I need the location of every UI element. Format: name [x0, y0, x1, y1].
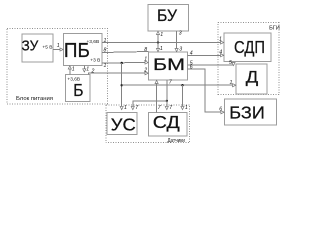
wire Б pin 2 to БМ pin 2	[89, 67, 149, 74]
block Б	[66, 75, 91, 102]
svg-text:1: 1	[86, 66, 89, 72]
dashed enclosure: БГИ	[218, 23, 280, 95]
wire pin7 net to СД pin 7	[167, 101, 174, 111]
svg-text:8: 8	[144, 47, 147, 53]
svg-text:1: 1	[160, 32, 163, 38]
svg-text:1: 1	[72, 66, 75, 72]
svg-text:+5 В: +5 В	[42, 45, 52, 51]
dashed enclosure: Блок питания	[7, 29, 107, 105]
wire ПБ down to Б pin 1	[84, 66, 89, 73]
svg-text:3: 3	[179, 31, 182, 37]
block БУ	[148, 5, 189, 32]
wire СД out up to БМ bottom	[157, 81, 162, 113]
wire Б pin 1 up to ПБ	[70, 66, 75, 75]
junction pin7 net	[166, 100, 168, 102]
svg-text:СДП: СДП	[234, 37, 265, 57]
block СДП	[224, 33, 271, 61]
svg-text:БГИ: БГИ	[269, 25, 280, 31]
wire +3,6V rail: ПБ to СДП pin 1	[102, 36, 224, 44]
wire +3V drop to УС pin 1	[122, 63, 127, 111]
block УС	[107, 112, 137, 134]
svg-text:7: 7	[158, 105, 162, 111]
svg-text:1: 1	[160, 46, 163, 52]
svg-text:7: 7	[135, 105, 139, 111]
junction on rail at БУ/БМ vertical	[157, 41, 159, 43]
block ПБ	[64, 34, 103, 66]
dashed enclosure: Датчики	[106, 105, 190, 144]
svg-text:1: 1	[104, 38, 107, 44]
junction bus left	[121, 84, 123, 86]
wire БМ pin 7 down	[167, 79, 173, 101]
svg-text:5: 5	[229, 60, 232, 66]
svg-text:Датчики: Датчики	[167, 138, 185, 144]
block ЗУ	[22, 34, 54, 62]
svg-text:+3,6В: +3,6В	[87, 39, 100, 45]
svg-text:Б: Б	[73, 80, 83, 100]
svg-text:СД: СД	[153, 112, 180, 132]
junction on +3V rail	[121, 62, 123, 64]
wire +3V rail: ПБ to БМ pin 1	[102, 56, 148, 69]
wire ЗУ to ПБ pin 1	[53, 43, 63, 50]
wire БУ pin 1 / БМ pin 1 vertical	[158, 32, 163, 52]
svg-text:1: 1	[230, 80, 233, 86]
wire +3V bus to Д	[122, 80, 236, 86]
svg-text:1: 1	[144, 56, 147, 62]
svg-text:БМ: БМ	[153, 55, 185, 74]
wire БМ pin 6 to БЗИ pin 6	[188, 64, 224, 112]
wire БМ pin 5 to Д pin 5	[188, 60, 234, 67]
svg-text:6: 6	[190, 64, 193, 70]
svg-text:1: 1	[124, 105, 127, 111]
wire drop to СД pin 1	[183, 85, 188, 111]
svg-text:3: 3	[179, 46, 182, 52]
svg-text:ЗУ: ЗУ	[22, 39, 39, 55]
svg-text:1: 1	[57, 43, 60, 49]
svg-text:1: 1	[219, 36, 222, 42]
svg-text:6: 6	[219, 106, 222, 112]
svg-text:Д: Д	[246, 68, 258, 86]
svg-text:+3 В: +3 В	[90, 57, 100, 63]
block СД	[148, 112, 187, 136]
svg-text:БЗИ: БЗИ	[229, 103, 264, 123]
svg-text:Блок питания: Блок питания	[16, 96, 53, 102]
svg-text:8: 8	[104, 48, 107, 54]
svg-text:УС: УС	[111, 114, 136, 134]
block БМ	[149, 52, 188, 80]
wire БУ pin 3 to БМ pin 3	[177, 31, 183, 53]
wire БМ pin 4 to СДП pin 4	[188, 49, 224, 56]
svg-text:2: 2	[143, 67, 147, 73]
svg-text:БУ: БУ	[157, 7, 178, 25]
svg-text:4: 4	[190, 50, 193, 56]
svg-text:7: 7	[169, 105, 173, 111]
svg-text:2: 2	[91, 68, 95, 74]
svg-text:4: 4	[219, 49, 222, 55]
junction bus at СД drop	[181, 84, 183, 86]
svg-text:1: 1	[104, 63, 107, 69]
block Д	[236, 64, 267, 94]
wire ПБ to БМ pin 8	[102, 47, 149, 54]
block БЗИ	[224, 99, 276, 125]
wire pin7 net to УС pin 7	[133, 101, 167, 111]
svg-text:1: 1	[185, 105, 188, 111]
